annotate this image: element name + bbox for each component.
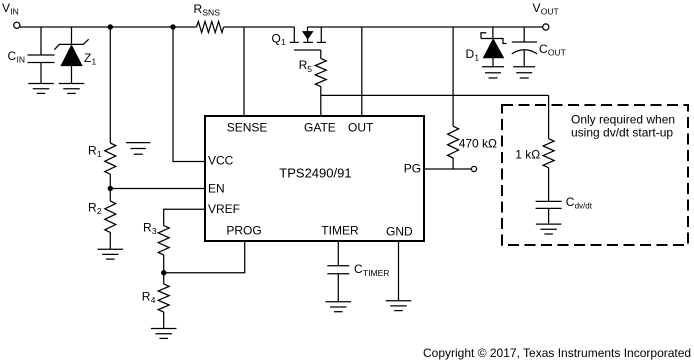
ground under R2 [98,249,124,259]
svg-text:1: 1 [474,53,479,63]
svg-text:V: V [2,1,10,15]
CTIMER label [354,262,389,278]
R2 label [88,201,102,217]
node PG terminal [471,166,476,171]
svg-text:SENSE: SENSE [227,120,268,134]
ground under CIN [28,84,54,94]
ground under COUT [513,67,535,78]
svg-text:Copyright © 2017, Texas Instru: Copyright © 2017, Texas Instruments Inco… [423,346,691,360]
CIN label [8,49,26,65]
ground under Z1 [59,84,85,94]
svg-text:R: R [142,290,151,304]
op-amp U1 chip TPS2490/91 outline [205,116,424,241]
wire gate node to dvdt branch [321,94,549,96]
svg-text:PG: PG [404,162,421,176]
wire rail to COUT [523,27,525,42]
wire Q1 gate to R5 [320,50,322,59]
ground under CTIMER [326,302,352,312]
svg-text:TIMER: TIMER [363,268,389,278]
wire GND pin to ground [398,241,400,301]
R1 label [88,143,102,159]
wire node to R4 [163,273,165,284]
svg-text:OUT: OUT [548,48,566,58]
svg-text:R: R [143,220,152,234]
COUT label [539,42,566,58]
svg-text:SNS: SNS [202,8,220,18]
wire top rail from VIN to RSNS [20,26,197,28]
svg-text:TIMER: TIMER [321,223,359,237]
svg-text:Only required when: Only required when [571,113,675,127]
wire PG pin to terminal [424,168,472,170]
wire R1 to EN node [109,174,111,188]
wire SENSE pin to rail [243,27,245,116]
svg-text:VREF: VREF [208,202,240,216]
svg-text:R: R [88,201,97,215]
resistor 470 kOhm [448,126,459,158]
svg-text:1: 1 [97,149,102,159]
junction dot EN node [108,186,113,191]
wire OUT pin to rail [361,27,363,116]
wire PROG pin to node [164,241,245,273]
svg-text:Z: Z [84,51,91,65]
svg-text:R: R [299,58,308,72]
svg-text:GATE: GATE [304,120,336,134]
svg-text:OUT: OUT [348,120,374,134]
svg-text:D: D [466,47,475,61]
capacitor COUT polarized [512,42,537,67]
Cdvdt label [566,195,593,211]
svg-text:C: C [354,262,363,276]
svg-text:VCC: VCC [208,153,234,167]
capacitor CTIMER [327,266,349,301]
wire EN node to R2 [109,189,111,202]
svg-text:1 kΩ: 1 kΩ [515,147,540,161]
floating ground symbol [126,143,150,155]
dashed box dvdt option [502,105,688,245]
resistor R1 [105,143,116,174]
svg-text:470 kΩ: 470 kΩ [459,137,497,151]
node VOUT label [533,1,559,17]
svg-text:3: 3 [152,226,157,236]
ground under R4 [151,329,177,339]
svg-text:PROG: PROG [226,223,261,237]
resistor R4 [158,284,169,312]
R3 label [143,220,157,236]
svg-text:5: 5 [307,64,312,74]
resistor R5 [315,59,326,87]
capacitor Cdvdt [536,201,562,223]
wire rail to R1 [109,27,111,143]
wire Z1 to rail [71,27,73,44]
svg-text:2: 2 [97,206,102,216]
svg-text:4: 4 [151,295,156,305]
svg-text:dv/dt: dv/dt [575,202,593,211]
wire 470k to PG wire [452,158,454,169]
wire R4 to ground [163,312,165,328]
junction dot PROG node [161,270,166,275]
R5 label [299,58,313,74]
svg-text:R: R [88,143,97,157]
svg-text:TPS2490/91: TPS2490/91 [279,166,351,181]
junction dot rail R1 branch [108,24,113,29]
wire R2 to ground [109,232,111,249]
wire gate node into 1k [548,95,550,138]
resistor RSNS [197,22,224,33]
svg-text:V: V [533,1,541,15]
wire rail to 470k [452,27,454,126]
resistor 1 kOhm [543,139,554,168]
diode D1 schottky [481,33,507,67]
node VIN label [2,1,19,17]
wire rail to D1 [492,27,494,39]
svg-text:1: 1 [281,37,286,47]
svg-text:C: C [566,195,575,209]
Q1 label [272,32,287,48]
wire R5 to GATE pin [320,87,322,117]
node VIN terminal [14,22,20,28]
svg-text:GND: GND [386,225,413,239]
R4 label [142,290,156,306]
svg-text:R: R [194,2,203,16]
RSNS label [194,2,221,18]
svg-text:using dv/dt start-up: using dv/dt start-up [571,126,673,140]
D1 label [466,47,480,63]
svg-text:IN: IN [10,7,18,17]
ground under Cdvdt [536,224,562,234]
wire 1k to Cdvdt [548,168,550,202]
wire TIMER pin to CTIMER [337,241,339,266]
ground under GND pin [386,301,412,311]
wire rail to VCC pin [173,27,205,162]
resistor R3 [158,226,169,255]
svg-text:1: 1 [92,57,97,67]
svg-text:OUT: OUT [541,7,559,17]
wire CIN to rail [40,27,42,55]
junction dot rail VCC branch [170,24,175,29]
svg-text:IN: IN [17,55,26,65]
capacitor CIN [28,55,55,83]
wire VREF pin to R3 [164,209,205,225]
resistor R2 [105,201,116,232]
wire rail over Q1 to VOUT [308,26,543,28]
svg-text:Q: Q [272,32,281,46]
svg-text:C: C [8,49,17,63]
wire EN node to EN pin [110,188,205,190]
wire RSNS to Q1 drain [224,26,295,28]
transistor Q1 [290,27,326,50]
zener diode Z1 [54,39,88,83]
ground under D1 [482,67,504,78]
Z1 label [84,51,97,67]
svg-text:C: C [539,42,548,56]
svg-text:EN: EN [208,181,225,195]
node VOUT terminal [543,24,549,30]
wire R3 to PROG node [163,255,165,273]
